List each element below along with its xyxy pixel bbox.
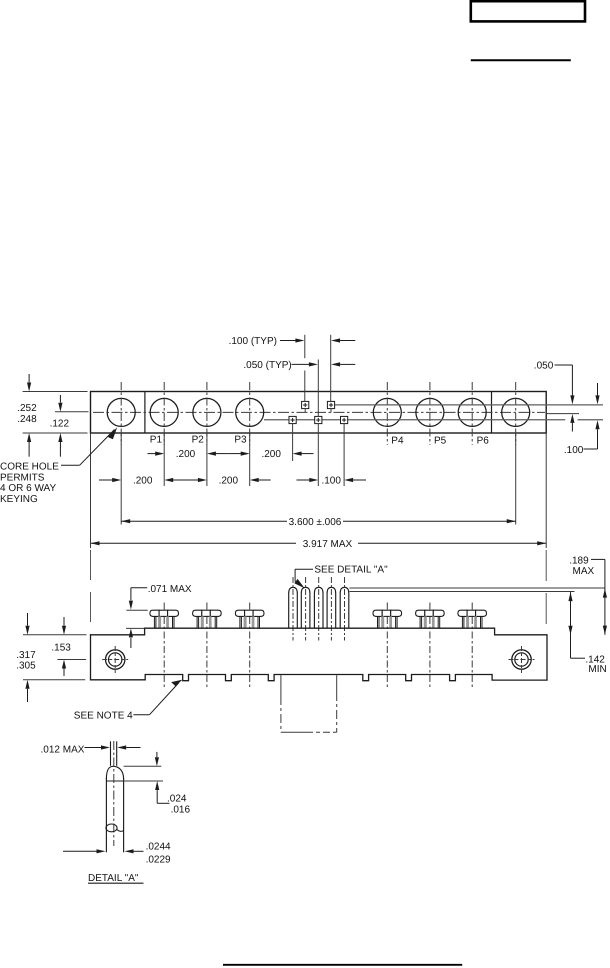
svg-text:DETAIL "A": DETAIL "A" bbox=[88, 873, 139, 884]
svg-text:SEE DETAIL "A": SEE DETAIL "A" bbox=[314, 564, 388, 575]
svg-text:.122: .122 bbox=[50, 419, 70, 430]
svg-text:.0244: .0244 bbox=[146, 841, 171, 852]
svg-text:P1: P1 bbox=[150, 435, 163, 446]
svg-text:.153: .153 bbox=[51, 643, 71, 654]
svg-text:.189: .189 bbox=[569, 555, 589, 566]
svg-text:.024: .024 bbox=[167, 793, 187, 804]
svg-text:.050: .050 bbox=[534, 361, 554, 372]
svg-text:.071 MAX: .071 MAX bbox=[148, 584, 192, 595]
svg-text:.0229: .0229 bbox=[146, 854, 171, 865]
svg-text:.317: .317 bbox=[16, 650, 36, 661]
svg-text:.252: .252 bbox=[17, 403, 37, 414]
svg-text:MAX: MAX bbox=[573, 566, 595, 577]
svg-text:.016: .016 bbox=[171, 804, 191, 815]
svg-text:MIN: MIN bbox=[588, 664, 606, 675]
svg-text:SEE NOTE 4: SEE NOTE 4 bbox=[74, 710, 133, 721]
svg-text:3.917 MAX: 3.917 MAX bbox=[303, 539, 353, 550]
svg-text:P6: P6 bbox=[477, 436, 490, 447]
svg-text:.100: .100 bbox=[321, 476, 341, 487]
svg-text:P4: P4 bbox=[391, 436, 404, 447]
svg-text:.200: .200 bbox=[219, 476, 239, 487]
svg-text:P2: P2 bbox=[192, 435, 205, 446]
svg-text:.200: .200 bbox=[133, 476, 153, 487]
svg-text:.305: .305 bbox=[16, 661, 36, 672]
svg-text:4 OR 6 WAY: 4 OR 6 WAY bbox=[0, 483, 56, 494]
svg-text:P3: P3 bbox=[234, 435, 247, 446]
svg-text:PERMITS: PERMITS bbox=[0, 472, 45, 483]
svg-text:P5: P5 bbox=[434, 436, 447, 447]
svg-text:.050 (TYP): .050 (TYP) bbox=[243, 360, 291, 371]
svg-text:3.600 ±.006: 3.600 ±.006 bbox=[289, 517, 342, 528]
svg-text:KEYING: KEYING bbox=[0, 494, 38, 505]
svg-text:.200: .200 bbox=[261, 449, 281, 460]
svg-text:.100 (TYP): .100 (TYP) bbox=[229, 336, 277, 347]
svg-text:CORE HOLE: CORE HOLE bbox=[0, 461, 59, 472]
svg-text:.248: .248 bbox=[17, 414, 37, 425]
svg-text:.200: .200 bbox=[176, 449, 196, 460]
svg-text:.012 MAX: .012 MAX bbox=[41, 745, 85, 756]
svg-text:.100: .100 bbox=[564, 445, 584, 456]
